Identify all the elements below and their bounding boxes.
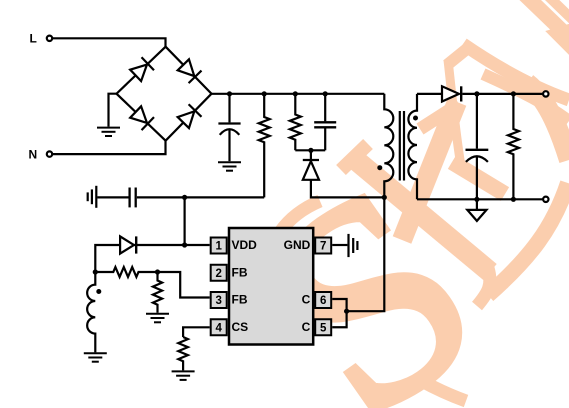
terminal Vout+ xyxy=(543,91,548,96)
ground secondary (triangle) xyxy=(476,199,478,210)
wire GND pin7 to earth xyxy=(332,244,347,246)
node bus-R1 xyxy=(262,91,267,96)
main DC bus xyxy=(212,93,385,95)
svg-text:FB: FB xyxy=(232,293,248,307)
node out-res top xyxy=(511,91,516,96)
aux winding L1 xyxy=(87,272,95,352)
terminal L xyxy=(47,36,52,41)
svg-text:3: 3 xyxy=(215,295,221,307)
node FB xyxy=(155,269,160,274)
node bus-snubC xyxy=(323,91,328,96)
capacitor C3 (output, polarized) xyxy=(476,94,478,149)
svg-text:L: L xyxy=(30,31,37,45)
svg-text:VDD: VDD xyxy=(232,238,258,252)
ground at C1 xyxy=(218,161,241,163)
svg-text:1: 1 xyxy=(215,241,222,253)
wire CS xyxy=(183,327,210,337)
earth symbol (left) xyxy=(95,186,97,208)
svg-text:6: 6 xyxy=(320,295,326,307)
ground at bridge xyxy=(109,94,117,127)
wire N to bridge bottom xyxy=(53,141,166,154)
node out-cap top xyxy=(474,91,479,96)
svg-text:4: 4 xyxy=(215,322,222,334)
svg-text:C: C xyxy=(302,320,311,334)
ground at R4 xyxy=(146,313,169,315)
secondary top rail xyxy=(417,93,442,95)
diode D2 (aux) xyxy=(120,236,134,253)
secondary bottom rail xyxy=(417,198,546,200)
node bus-snubR xyxy=(293,91,298,96)
resistor R1 xyxy=(259,94,270,198)
capacitor CX (X-cap) xyxy=(97,196,128,198)
phase dot aux xyxy=(96,289,101,294)
wire pin5 xyxy=(332,311,346,327)
svg-text:7: 7 xyxy=(320,241,326,253)
svg-text:CS: CS xyxy=(232,320,249,334)
capacitor C1 (bulk, polarized) xyxy=(228,94,230,123)
node bus-C1 xyxy=(227,91,232,96)
earth symbol at pin7 xyxy=(347,234,349,257)
resistor R6 (output) xyxy=(508,94,519,199)
phase dot secondary xyxy=(413,116,418,121)
ground at R5 xyxy=(172,370,195,372)
pin 6 box xyxy=(315,292,331,308)
pin 5 box xyxy=(315,319,331,335)
diode D4 (output) xyxy=(442,86,459,101)
phase dot primary xyxy=(377,165,382,170)
pin 3 box xyxy=(211,292,227,308)
transformer core xyxy=(399,111,401,181)
node out-cap bottom xyxy=(474,197,479,202)
snubber node rail xyxy=(295,149,325,151)
resistor R3 (horizontal) xyxy=(95,267,157,277)
pin 1 box xyxy=(211,238,227,254)
node aux rail xyxy=(182,195,187,200)
bridge diode D1d (bottom-right) xyxy=(177,104,202,129)
svg-text:N: N xyxy=(29,147,38,161)
transformer T1 secondary xyxy=(408,94,417,199)
node aux divider xyxy=(93,269,98,274)
svg-text:5: 5 xyxy=(320,322,327,334)
svg-text:FB: FB xyxy=(232,265,248,279)
node VDD xyxy=(182,242,187,247)
transformer T1 primary xyxy=(347,94,394,311)
svg-text:2: 2 xyxy=(215,268,221,280)
IC U1 body xyxy=(229,228,313,345)
ground at aux winding xyxy=(84,352,107,354)
terminal Vout- xyxy=(543,197,548,202)
wire FB jog to pin3 xyxy=(158,272,210,298)
pin 7 box xyxy=(315,238,331,254)
pin 2 box xyxy=(211,265,227,281)
bridge diode D1a (top-left) xyxy=(129,57,154,82)
snubber capacitor C2 xyxy=(324,94,326,122)
bridge diode D1c (bottom-left) xyxy=(129,106,154,131)
diode D3 (clamp, pointing up) xyxy=(310,150,312,159)
resistor R5 (CS) xyxy=(178,337,188,370)
node snubber xyxy=(308,148,313,153)
wire down to VDD rail xyxy=(184,197,186,245)
pin 4 box xyxy=(211,319,227,335)
svg-text:GND: GND xyxy=(284,238,311,252)
snubber resistor R2 xyxy=(290,94,301,151)
svg-text:C: C xyxy=(302,293,311,307)
VDD wire xyxy=(95,245,209,272)
bridge diode D1b (top-right) xyxy=(177,59,202,84)
bridge rectifier diamond xyxy=(117,47,212,141)
node drain xyxy=(344,309,349,314)
node out-res bottom xyxy=(511,197,516,202)
wire L to bridge top xyxy=(53,38,166,46)
node primary-snubber xyxy=(382,195,387,200)
terminal N xyxy=(47,151,52,156)
wire pin6 xyxy=(332,299,346,311)
wire X-cap to R1 bottom xyxy=(137,196,264,198)
resistor R4 (to ground) xyxy=(153,272,162,313)
